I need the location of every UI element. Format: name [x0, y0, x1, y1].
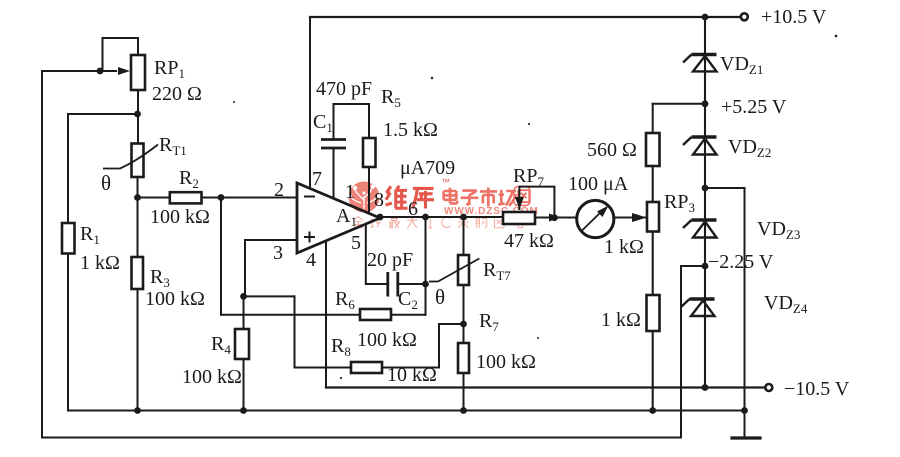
svg-text:220 Ω: 220 Ω	[152, 83, 202, 105]
svg-text:1 kΩ: 1 kΩ	[601, 309, 641, 331]
svg-text:1.5 kΩ: 1.5 kΩ	[383, 119, 438, 141]
svg-text:7: 7	[312, 168, 322, 190]
svg-text:+5.25 V: +5.25 V	[721, 96, 787, 118]
svg-text:−10.5 V: −10.5 V	[784, 378, 850, 400]
svg-text:−2.25 V: −2.25 V	[708, 251, 774, 273]
svg-text:560 Ω: 560 Ω	[587, 139, 637, 161]
svg-text:4: 4	[306, 249, 316, 271]
svg-text:47 kΩ: 47 kΩ	[504, 230, 554, 252]
svg-text:20 pF: 20 pF	[367, 249, 413, 271]
svg-text:1 kΩ: 1 kΩ	[80, 252, 120, 274]
svg-text:1 kΩ: 1 kΩ	[604, 236, 644, 258]
svg-text:8: 8	[374, 189, 384, 211]
svg-text:2: 2	[274, 179, 284, 201]
svg-text:θ: θ	[101, 171, 111, 195]
svg-text:θ: θ	[435, 285, 445, 309]
svg-text:100 kΩ: 100 kΩ	[476, 351, 536, 373]
svg-text:10 kΩ: 10 kΩ	[387, 364, 437, 386]
svg-text:100 kΩ: 100 kΩ	[357, 329, 417, 351]
svg-text:3: 3	[273, 242, 283, 264]
svg-text:μA709: μA709	[400, 157, 455, 179]
svg-text:1: 1	[345, 181, 355, 203]
svg-text:100 kΩ: 100 kΩ	[145, 288, 205, 310]
svg-text:100 μA: 100 μA	[568, 173, 629, 195]
svg-text:5: 5	[351, 232, 361, 254]
svg-text:470 pF: 470 pF	[316, 78, 372, 100]
svg-text:6: 6	[408, 198, 418, 220]
svg-text:100 kΩ: 100 kΩ	[182, 366, 242, 388]
svg-text:+10.5 V: +10.5 V	[761, 6, 827, 28]
svg-text:100 kΩ: 100 kΩ	[150, 206, 210, 228]
